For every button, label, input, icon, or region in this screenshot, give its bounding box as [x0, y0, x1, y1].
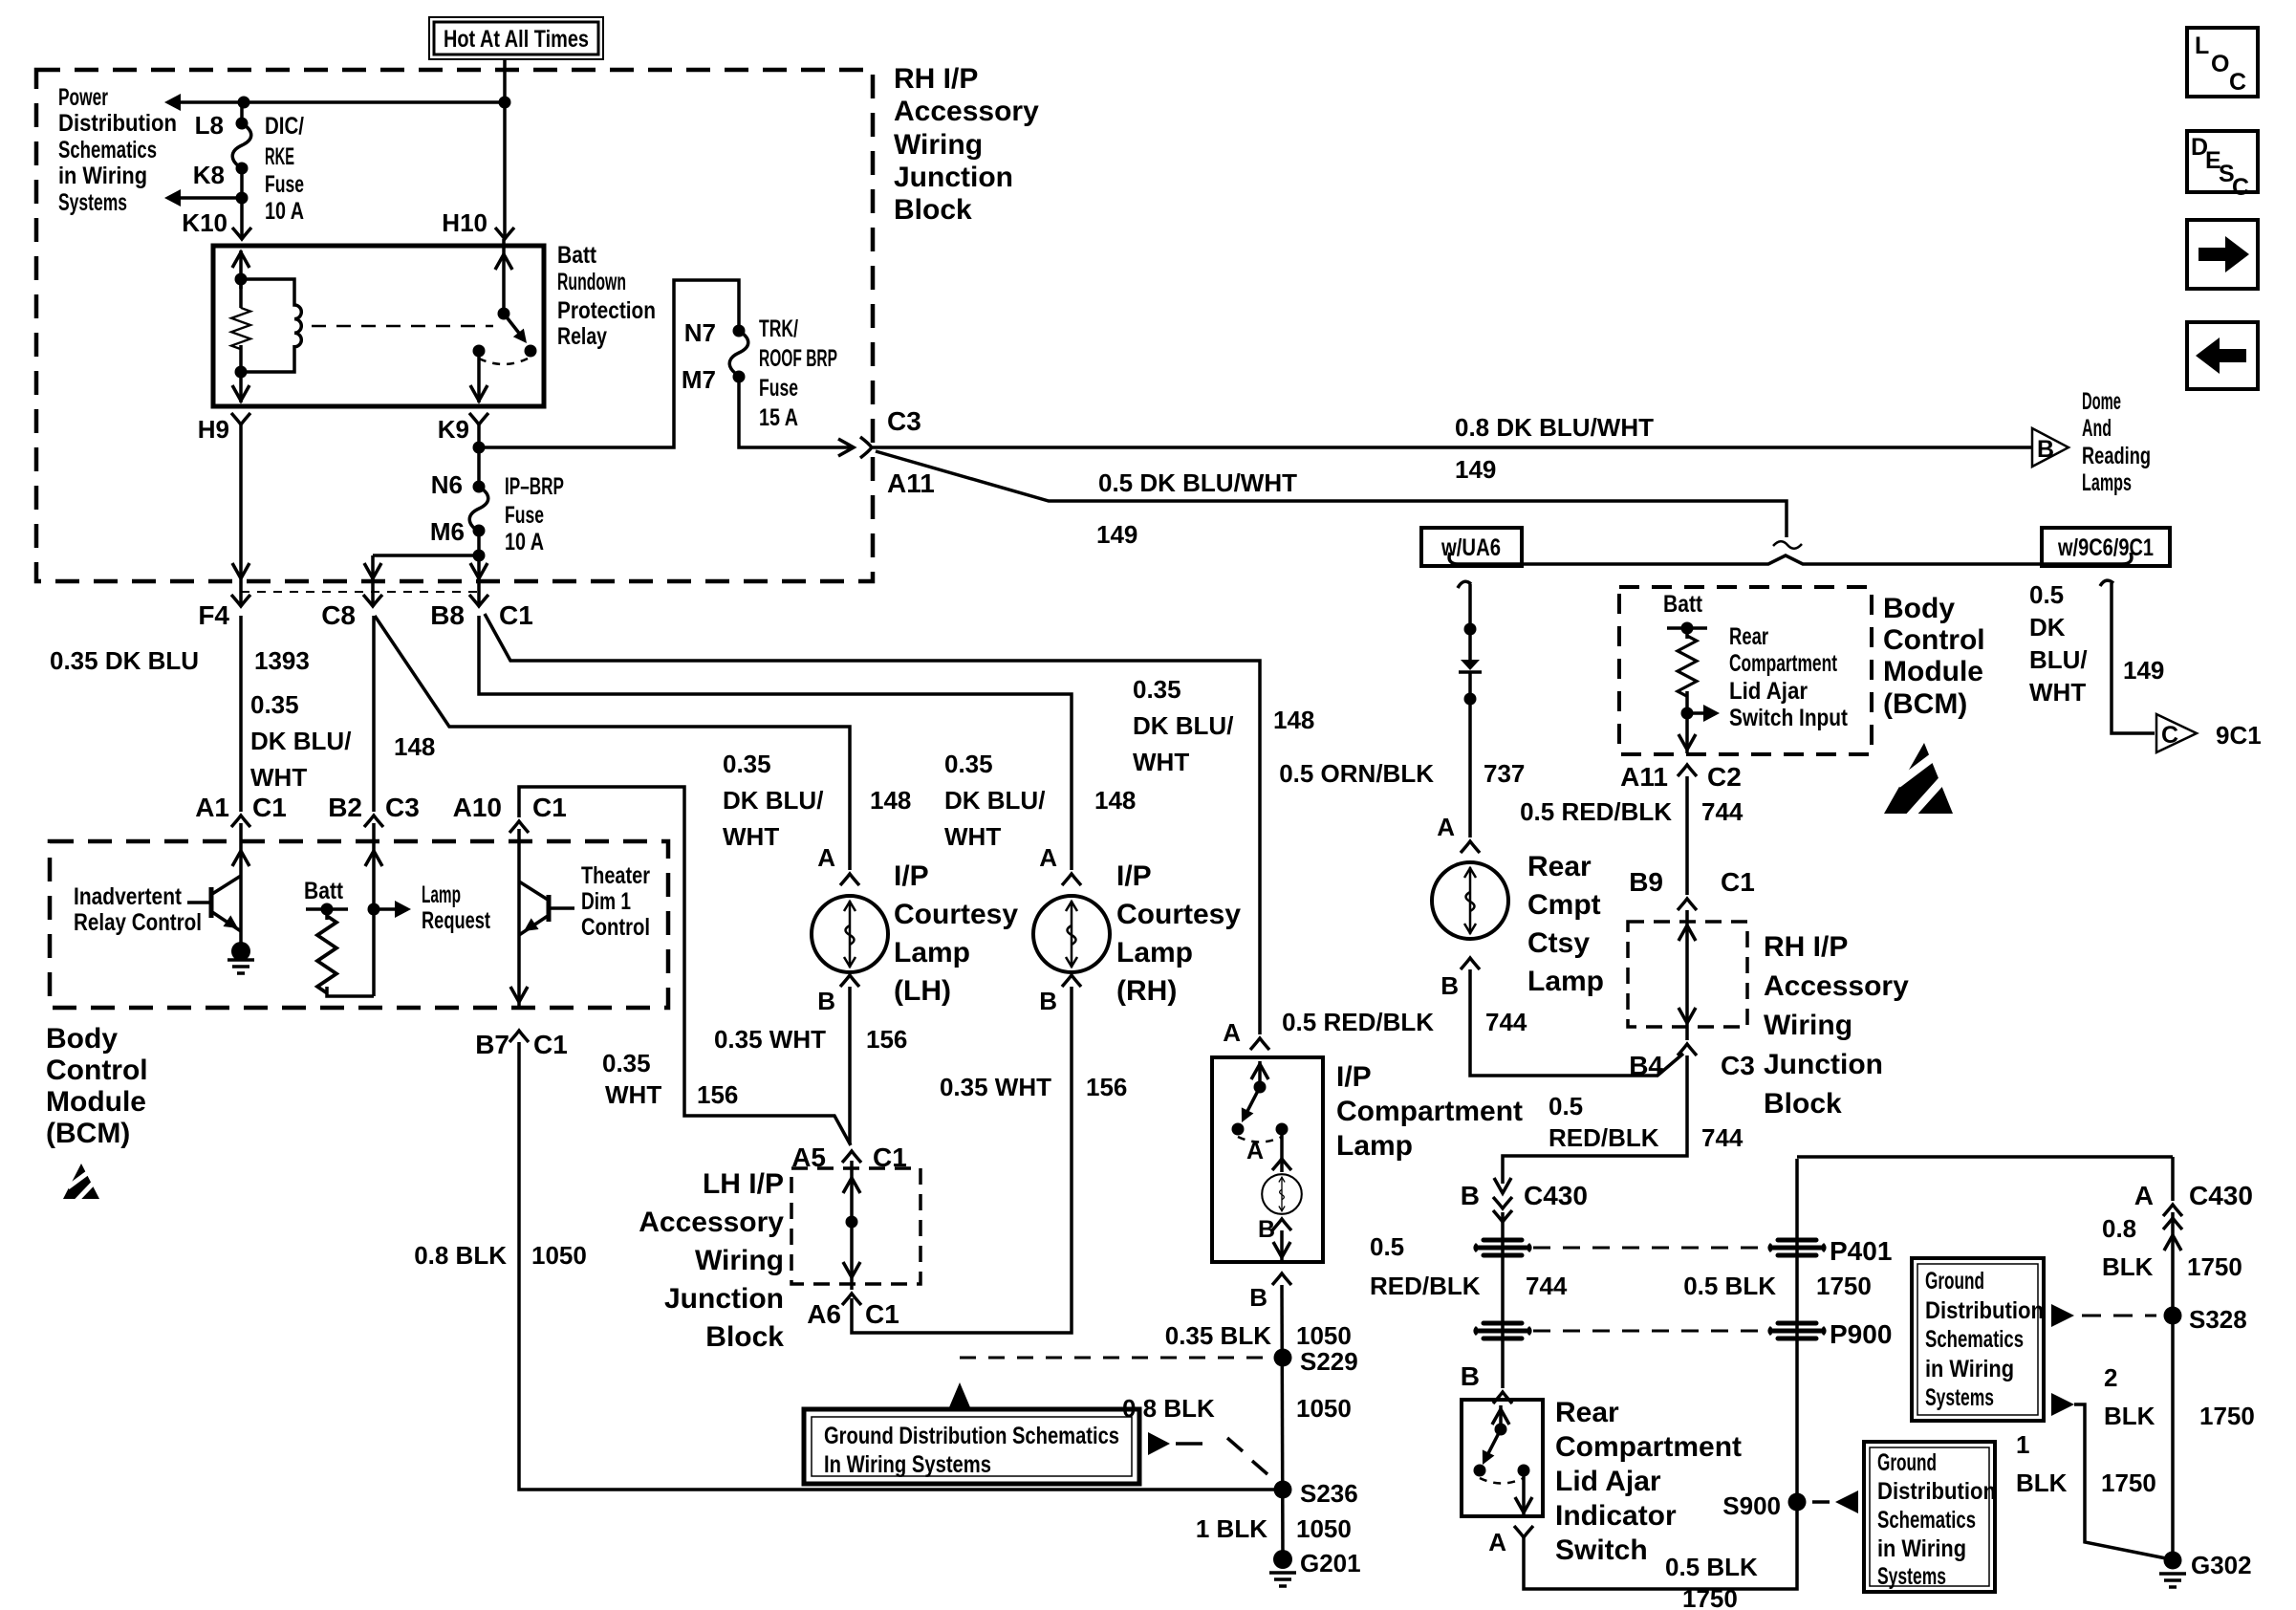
svg-text:1050: 1050	[531, 1241, 587, 1270]
svg-text:C1: C1	[533, 1030, 568, 1059]
svg-text:WHT: WHT	[723, 822, 779, 851]
svg-text:10 A: 10 A	[265, 198, 304, 225]
svg-text:B: B	[1461, 1181, 1480, 1210]
svg-text:B: B	[1461, 1361, 1480, 1391]
svg-text:Systems: Systems	[58, 189, 127, 216]
svg-text:B: B	[817, 987, 835, 1015]
svg-text:in Wiring: in Wiring	[1877, 1535, 1966, 1562]
svg-text:B4: B4	[1629, 1051, 1663, 1080]
svg-text:Request: Request	[422, 907, 490, 934]
svg-text:BLK: BLK	[2102, 1252, 2154, 1281]
svg-text:Lamps: Lamps	[2082, 469, 2132, 496]
svg-text:Distribution: Distribution	[1925, 1297, 2044, 1324]
svg-text:148: 148	[1094, 786, 1136, 815]
svg-text:Lamp: Lamp	[1116, 937, 1193, 968]
svg-text:M7: M7	[682, 365, 716, 394]
svg-text:Theater: Theater	[581, 862, 650, 889]
svg-text:I/P: I/P	[894, 860, 929, 892]
svg-text:In Wiring Systems: In Wiring Systems	[824, 1451, 991, 1478]
svg-text:A: A	[1246, 1138, 1264, 1164]
svg-text:Lid Ajar: Lid Ajar	[1729, 678, 1808, 705]
svg-text:0.8 DK BLU/WHT: 0.8 DK BLU/WHT	[1455, 413, 1654, 442]
svg-text:B8: B8	[430, 600, 465, 630]
svg-text:S236: S236	[1300, 1479, 1358, 1508]
svg-text:C1: C1	[532, 793, 567, 822]
svg-text:0.35: 0.35	[1133, 675, 1181, 704]
svg-text:0.35 DK BLU: 0.35 DK BLU	[50, 646, 199, 675]
svg-text:I/P: I/P	[1116, 860, 1152, 892]
svg-text:And: And	[2082, 415, 2112, 442]
svg-text:Schematics: Schematics	[58, 137, 157, 163]
svg-text:Compartment: Compartment	[1555, 1431, 1742, 1463]
svg-text:A: A	[817, 843, 835, 872]
svg-text:156: 156	[1086, 1073, 1127, 1101]
svg-text:Module: Module	[46, 1086, 146, 1118]
svg-text:RKE: RKE	[265, 143, 294, 170]
svg-text:Batt: Batt	[557, 242, 597, 269]
svg-text:N6: N6	[431, 470, 463, 499]
svg-text:Rundown: Rundown	[557, 269, 626, 295]
svg-text:1393: 1393	[254, 646, 310, 675]
svg-text:RH I/P: RH I/P	[894, 63, 978, 95]
svg-text:Systems: Systems	[1925, 1384, 1994, 1411]
svg-text:Indicator: Indicator	[1555, 1500, 1677, 1532]
svg-text:1750: 1750	[1682, 1584, 1738, 1610]
svg-text:Accessory: Accessory	[894, 96, 1039, 127]
svg-text:A: A	[1039, 843, 1057, 872]
svg-text:Ground Distribution Schematics: Ground Distribution Schematics	[824, 1423, 1119, 1449]
svg-text:M6: M6	[430, 517, 465, 546]
svg-text:S900: S900	[1722, 1491, 1781, 1520]
svg-text:Hot At All Times: Hot At All Times	[444, 26, 589, 53]
svg-text:1750: 1750	[2101, 1469, 2156, 1497]
svg-text:149: 149	[1455, 455, 1496, 484]
svg-text:744: 744	[1701, 1123, 1744, 1152]
svg-text:Batt: Batt	[1663, 591, 1703, 618]
svg-text:0.8: 0.8	[2102, 1214, 2136, 1243]
svg-text:L: L	[2195, 33, 2209, 59]
svg-text:2: 2	[2104, 1363, 2117, 1392]
svg-text:C1: C1	[252, 793, 287, 822]
svg-text:1: 1	[2016, 1430, 2029, 1459]
svg-text:156: 156	[866, 1025, 907, 1054]
svg-text:DK BLU/: DK BLU/	[1133, 711, 1233, 740]
svg-text:9C1: 9C1	[2216, 721, 2262, 750]
svg-text:Switch: Switch	[1555, 1534, 1648, 1566]
svg-text:0.5 DK BLU/WHT: 0.5 DK BLU/WHT	[1098, 468, 1297, 497]
svg-text:Junction: Junction	[664, 1283, 784, 1315]
svg-text:Inadvertent: Inadvertent	[74, 883, 183, 910]
svg-text:Batt: Batt	[304, 878, 344, 904]
svg-text:A11: A11	[1620, 762, 1668, 792]
svg-text:Lamp: Lamp	[1527, 966, 1604, 997]
svg-text:148: 148	[394, 732, 435, 761]
svg-text:Rear: Rear	[1555, 1397, 1619, 1428]
svg-text:B2: B2	[328, 793, 362, 822]
svg-text:Relay Control: Relay Control	[74, 909, 202, 936]
svg-text:Block: Block	[705, 1321, 784, 1353]
svg-text:B9: B9	[1629, 867, 1663, 897]
svg-text:Wiring: Wiring	[894, 129, 983, 161]
svg-text:LH I/P: LH I/P	[703, 1168, 784, 1200]
svg-text:Junction: Junction	[1764, 1049, 1883, 1080]
svg-text:Block: Block	[1764, 1088, 1842, 1120]
svg-text:in Wiring: in Wiring	[1925, 1356, 2014, 1382]
svg-text:C: C	[2161, 722, 2178, 749]
svg-text:0.5: 0.5	[2029, 580, 2064, 609]
svg-text:BLU/: BLU/	[2029, 645, 2088, 674]
svg-text:K9: K9	[438, 415, 469, 444]
svg-text:0.8 BLK: 0.8 BLK	[414, 1241, 507, 1270]
svg-text:RED/BLK: RED/BLK	[1370, 1272, 1481, 1300]
svg-text:N7: N7	[684, 318, 716, 347]
svg-text:B: B	[1440, 971, 1459, 1000]
svg-text:156: 156	[697, 1080, 738, 1109]
svg-text:0.5 BLK: 0.5 BLK	[1665, 1553, 1758, 1581]
svg-text:10 A: 10 A	[505, 529, 544, 555]
svg-text:737: 737	[1484, 759, 1525, 788]
svg-text:Rear: Rear	[1729, 623, 1768, 650]
svg-text:A6: A6	[807, 1299, 841, 1329]
svg-text:Ctsy: Ctsy	[1527, 927, 1590, 959]
svg-text:Cmpt: Cmpt	[1527, 889, 1601, 921]
svg-text:Lamp: Lamp	[1336, 1130, 1413, 1162]
svg-text:G201: G201	[1300, 1549, 1361, 1577]
svg-text:Block: Block	[894, 194, 972, 226]
svg-text:C1: C1	[865, 1299, 899, 1329]
svg-text:Distribution: Distribution	[1877, 1478, 1996, 1505]
svg-text:Body: Body	[1883, 593, 1955, 624]
svg-text:O: O	[2211, 51, 2229, 77]
svg-text:1750: 1750	[1816, 1272, 1872, 1300]
svg-text:Dome: Dome	[2082, 388, 2121, 415]
svg-text:DK BLU/: DK BLU/	[723, 786, 823, 815]
svg-text:ROOF BRP: ROOF BRP	[759, 345, 837, 372]
svg-text:Compartment: Compartment	[1729, 650, 1837, 677]
svg-text:WHT: WHT	[944, 822, 1001, 851]
svg-text:DK BLU/: DK BLU/	[944, 786, 1045, 815]
svg-text:A: A	[1488, 1528, 1506, 1556]
svg-text:15 A: 15 A	[759, 404, 798, 431]
svg-text:0.5 BLK: 0.5 BLK	[1683, 1272, 1776, 1300]
svg-text:WHT: WHT	[250, 763, 307, 792]
svg-text:w/UA6: w/UA6	[1440, 534, 1501, 561]
svg-text:0.5 ORN/BLK: 0.5 ORN/BLK	[1279, 759, 1434, 788]
svg-text:1050: 1050	[1296, 1394, 1352, 1423]
svg-text:Courtesy: Courtesy	[894, 899, 1018, 930]
svg-text:149: 149	[1096, 520, 1137, 549]
svg-text:Lamp: Lamp	[422, 881, 461, 908]
svg-text:C: C	[2229, 69, 2246, 96]
svg-text:B: B	[2037, 436, 2054, 463]
svg-text:H10: H10	[442, 208, 487, 237]
svg-text:Power: Power	[58, 84, 108, 111]
svg-text:Junction: Junction	[894, 162, 1013, 193]
svg-text:Accessory: Accessory	[639, 1207, 784, 1238]
svg-text:B: B	[1039, 987, 1057, 1015]
svg-text:Relay: Relay	[557, 323, 607, 350]
svg-text:BLK: BLK	[2016, 1469, 2068, 1497]
svg-text:BLK: BLK	[2104, 1402, 2155, 1430]
svg-text:B: B	[1249, 1283, 1267, 1312]
svg-text:Courtesy: Courtesy	[1116, 899, 1241, 930]
svg-text:148: 148	[870, 786, 911, 815]
svg-text:Systems: Systems	[1877, 1563, 1946, 1590]
svg-text:RED/BLK: RED/BLK	[1549, 1123, 1659, 1152]
svg-text:WHT: WHT	[605, 1080, 661, 1109]
svg-text:Fuse: Fuse	[265, 171, 304, 198]
svg-text:1050: 1050	[1296, 1514, 1352, 1543]
svg-text:C3: C3	[1721, 1051, 1755, 1080]
svg-text:Lid Ajar: Lid Ajar	[1555, 1466, 1661, 1497]
svg-text:0.35: 0.35	[944, 750, 993, 778]
svg-text:149: 149	[2123, 656, 2164, 685]
svg-text:Reading: Reading	[2082, 443, 2151, 469]
svg-text:A1: A1	[195, 793, 229, 822]
svg-text:0.5: 0.5	[1549, 1092, 1583, 1120]
svg-text:Protection: Protection	[557, 297, 656, 324]
svg-text:Fuse: Fuse	[505, 502, 544, 529]
svg-text:Ground: Ground	[1925, 1268, 1984, 1295]
svg-text:P401: P401	[1830, 1236, 1892, 1266]
svg-text:G302: G302	[2191, 1551, 2252, 1579]
svg-text:A11: A11	[887, 468, 935, 498]
svg-text:(BCM): (BCM)	[46, 1118, 130, 1149]
svg-text:DK: DK	[2029, 613, 2066, 642]
svg-text:0.35: 0.35	[602, 1049, 651, 1077]
svg-text:Control: Control	[581, 914, 650, 941]
svg-text:C430: C430	[1524, 1181, 1588, 1210]
svg-text:1750: 1750	[2187, 1252, 2242, 1281]
svg-text:Wiring: Wiring	[695, 1245, 784, 1276]
svg-text:TRK/: TRK/	[759, 315, 798, 342]
svg-text:Schematics: Schematics	[1877, 1507, 1976, 1534]
svg-text:1 BLK: 1 BLK	[1196, 1514, 1267, 1543]
svg-text:K10: K10	[182, 208, 227, 237]
svg-text:Switch Input: Switch Input	[1729, 705, 1849, 731]
svg-text:(RH): (RH)	[1116, 975, 1177, 1007]
svg-text:F4: F4	[198, 600, 229, 630]
svg-text:Ground: Ground	[1877, 1449, 1937, 1476]
svg-text:C: C	[2232, 174, 2249, 201]
svg-text:744: 744	[1701, 797, 1744, 826]
svg-text:C2: C2	[1707, 762, 1742, 792]
svg-text:1750: 1750	[2199, 1402, 2255, 1430]
svg-text:Accessory: Accessory	[1764, 970, 1909, 1002]
svg-text:0.35 WHT: 0.35 WHT	[940, 1073, 1051, 1101]
svg-text:Body: Body	[46, 1023, 118, 1055]
svg-text:A: A	[1223, 1018, 1241, 1047]
svg-text:IP–BRP: IP–BRP	[505, 473, 564, 500]
svg-text:C3: C3	[887, 406, 921, 436]
svg-text:0.35 BLK: 0.35 BLK	[1165, 1321, 1271, 1350]
svg-text:744: 744	[1526, 1272, 1568, 1300]
svg-text:Schematics: Schematics	[1925, 1326, 2024, 1353]
svg-text:Wiring: Wiring	[1764, 1010, 1852, 1041]
svg-text:C3: C3	[385, 793, 420, 822]
svg-text:0.5 RED/BLK: 0.5 RED/BLK	[1282, 1008, 1434, 1036]
svg-text:A: A	[2134, 1181, 2154, 1210]
svg-text:(BCM): (BCM)	[1883, 688, 1967, 720]
svg-text:WHT: WHT	[1133, 748, 1189, 776]
svg-text:w/9C6/9C1: w/9C6/9C1	[2057, 534, 2154, 561]
svg-text:A: A	[1437, 813, 1455, 841]
svg-text:C430: C430	[2189, 1181, 2253, 1210]
svg-text:DK BLU/: DK BLU/	[250, 727, 351, 755]
svg-text:K8: K8	[193, 161, 225, 189]
svg-text:S328: S328	[2189, 1305, 2247, 1334]
svg-text:I/P: I/P	[1336, 1061, 1372, 1093]
svg-text:RH I/P: RH I/P	[1764, 931, 1848, 963]
svg-text:H9: H9	[198, 415, 229, 444]
svg-text:Lamp: Lamp	[894, 937, 970, 968]
svg-text:Module: Module	[1883, 656, 1983, 687]
svg-text:C1: C1	[1721, 867, 1755, 897]
svg-text:1050: 1050	[1296, 1321, 1352, 1350]
svg-text:0.35 WHT: 0.35 WHT	[714, 1025, 826, 1054]
svg-text:WHT: WHT	[2029, 678, 2086, 707]
svg-text:0.35: 0.35	[250, 690, 299, 719]
svg-text:Rear: Rear	[1527, 851, 1592, 882]
svg-text:148: 148	[1273, 706, 1314, 734]
svg-text:DIC/: DIC/	[265, 113, 304, 140]
svg-text:P900: P900	[1830, 1319, 1892, 1349]
svg-text:B: B	[1258, 1216, 1275, 1243]
svg-text:Control: Control	[1883, 624, 1985, 656]
svg-text:Control: Control	[46, 1055, 148, 1086]
svg-text:C8: C8	[321, 600, 356, 630]
svg-text:in Wiring: in Wiring	[58, 163, 147, 189]
svg-text:C1: C1	[499, 600, 533, 630]
svg-text:0.5: 0.5	[1370, 1232, 1404, 1261]
svg-text:S229: S229	[1300, 1347, 1358, 1376]
svg-text:(LH): (LH)	[894, 975, 951, 1007]
svg-text:A10: A10	[453, 793, 502, 822]
svg-text:744: 744	[1485, 1008, 1527, 1036]
svg-text:B7: B7	[475, 1030, 509, 1059]
svg-text:L8: L8	[195, 111, 224, 140]
svg-text:Fuse: Fuse	[759, 375, 798, 402]
svg-text:Compartment: Compartment	[1336, 1096, 1523, 1127]
svg-text:0.5 RED/BLK: 0.5 RED/BLK	[1520, 797, 1672, 826]
svg-text:Distribution: Distribution	[58, 110, 177, 137]
svg-text:0.35: 0.35	[723, 750, 771, 778]
svg-text:Dim 1: Dim 1	[581, 888, 631, 915]
